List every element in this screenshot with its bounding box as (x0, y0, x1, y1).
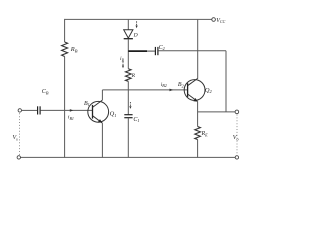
svg-text:iR: iR (120, 56, 125, 62)
svg-text:RE: RE (201, 131, 209, 137)
svg-text:Vs: Vs (13, 135, 19, 141)
svg-text:iB1: iB1 (68, 115, 74, 121)
svg-text:C1: C1 (133, 117, 139, 123)
svg-text:iB2: iB2 (161, 82, 167, 88)
svg-text:VCC: VCC (216, 18, 225, 24)
svg-text:D: D (133, 32, 138, 38)
svg-text:Vo: Vo (233, 135, 239, 141)
svg-text:CB: CB (42, 89, 49, 95)
svg-text:C2: C2 (159, 45, 165, 51)
svg-text:B2: B2 (178, 82, 184, 88)
svg-text:Q2: Q2 (205, 87, 213, 94)
svg-text:RB: RB (70, 46, 78, 53)
svg-text:R: R (131, 73, 136, 79)
svg-text:Q1: Q1 (110, 110, 117, 117)
svg-text:B1: B1 (84, 101, 90, 107)
